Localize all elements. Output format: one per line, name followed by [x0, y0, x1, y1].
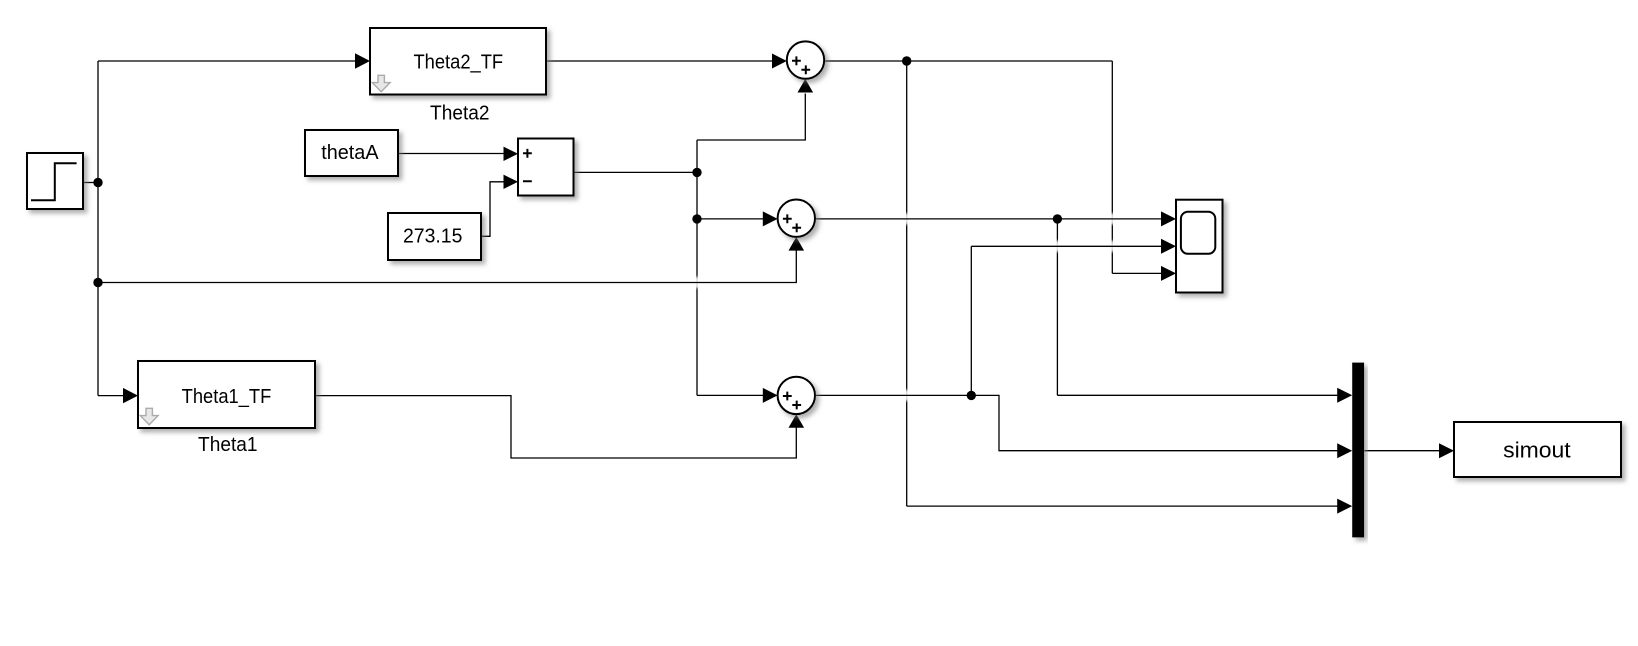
wire: thetaA output to sum-rect plus input — [398, 153, 504, 155]
wire: corner down to scope input 3 — [1112, 272, 1162, 274]
scope block — [1176, 200, 1223, 293]
wire: Theta1_TF output jog to sum3 bottom input — [315, 396, 796, 458]
wire: step output vertical trunk x=98 (y61 to y395.6) — [97, 61, 99, 396]
transfer function block Theta1_TF — [138, 361, 315, 428]
junction at sum1 output (906.7,60.7) — [902, 56, 911, 65]
wire: sum2 branch to mux input 1 — [1057, 394, 1338, 396]
arrowhead into sum-rect minus input — [504, 175, 519, 189]
arrowhead into simout input — [1439, 443, 1454, 458]
wire: step output stub to junction — [83, 182, 98, 184]
to-workspace block simout — [1454, 422, 1621, 477]
wire: trunk top corner to sum1 bottom input — [697, 94, 805, 141]
sum circle 2 (ambient-converted + step) — [778, 200, 815, 237]
crossing gap at (1112.3,246.3) — [1110, 241, 1114, 252]
wire: step trunk to Theta1_TF input (y=395.6) — [98, 395, 124, 397]
wire: sum3 branch up to scope input 2 — [971, 245, 1162, 247]
crossing gap at (1057.4,246.3) — [1056, 241, 1060, 252]
wire: trunk bottom corner to sum3 left input — [697, 394, 764, 396]
wire: sum2 output to scope input 1 — [815, 218, 1162, 220]
svg-text:simout: simout — [1503, 438, 1571, 463]
wire: step to Theta2_TF input (y=61) — [98, 60, 356, 62]
step source block — [27, 153, 83, 209]
arrowhead into scope input 1 — [1161, 211, 1176, 226]
svg-text:Theta2_TF: Theta2_TF — [413, 51, 503, 73]
wire: trunk junction to sum2 left input — [697, 218, 764, 220]
arrowhead into mux input 3 — [1337, 499, 1352, 514]
arrowhead into sum2 bottom input — [789, 237, 805, 251]
svg-text:Theta2: Theta2 — [430, 103, 490, 125]
mux block — [1352, 363, 1364, 538]
wire: sum-rect output to trunk junction — [574, 171, 698, 173]
crossing gap at (1112.3,218.9) — [1110, 213, 1114, 224]
wire: sum3 branch vertical x=971.3 (y246.3 to y395.4) — [970, 246, 972, 395]
junction at sum2 output (1057.4,218.9) — [1053, 214, 1062, 223]
arrowhead into scope input 3 — [1161, 266, 1176, 281]
wire: sum-rect output trunk x=697 (y140 to y395.4) — [696, 140, 698, 395]
wire: sum1-to-scope vertical x=1112.3 (y61 to y273.4) — [1111, 61, 1113, 273]
arrowhead into Theta2_TF input — [355, 53, 370, 68]
arrowhead into mux input 1 — [1337, 388, 1352, 403]
wire: step lower junction long run to sum2 bottom input — [98, 251, 796, 283]
crossing gap at (697,282.5) — [695, 277, 699, 288]
arrowhead into sum3 left input — [763, 388, 778, 403]
junction at step lower branch (98,282.5) — [93, 278, 102, 287]
junction at sum-rect output (697,172.4) — [692, 168, 701, 177]
label Theta2 — [430, 103, 490, 125]
constant block thetaA — [305, 130, 398, 176]
arrowhead into sum-rect plus input — [504, 147, 519, 161]
wire: sum1 output to corner x=1112.3 — [824, 60, 1112, 62]
arrowhead into scope input 2 — [1161, 239, 1176, 254]
svg-text:Theta1: Theta1 — [198, 434, 258, 456]
svg-text:Theta1_TF: Theta1_TF — [182, 386, 272, 408]
arrowhead into sum1 left input — [772, 54, 787, 69]
sum block rectangular plus-minus — [518, 139, 574, 196]
sum circle 1 (Theta2 + ambient) — [787, 41, 824, 78]
wire: sum2 branch vertical x=1057.4 (y218.9 to y395.3) — [1056, 219, 1058, 395]
junction at step output (98,182.5) — [93, 178, 102, 187]
wire: 273.15 output jog to sum-rect minus input — [481, 182, 504, 237]
sum circle 3 (Theta1 + step) — [778, 377, 815, 414]
arrowhead into sum1 bottom input — [798, 79, 814, 93]
wire: Theta2_TF output to sum1 left input — [546, 60, 773, 62]
arrowhead into mux input 2 — [1337, 443, 1352, 458]
constant block 273.15 — [388, 213, 481, 260]
arrowhead into Theta1_TF input — [123, 388, 138, 403]
crossing gap at (906.7,395.4) — [905, 390, 909, 401]
junction at sum3 output (971.3,395.4) — [967, 391, 976, 400]
arrowhead into sum2 left input — [763, 211, 778, 226]
svg-text:273.15: 273.15 — [403, 226, 463, 248]
crossing gap at (906.7,218.9) — [905, 213, 909, 224]
arrowhead into sum3 bottom input — [789, 414, 805, 428]
wire: sum3 output to jog corner — [815, 395, 1338, 450]
svg-text:thetaA: thetaA — [321, 142, 379, 164]
wire: sum1 branch to mux input 3 — [907, 505, 1338, 507]
transfer function block Theta2_TF — [370, 28, 546, 95]
wire: sum1 branch vertical x=906.7 (y61 to y506.1) — [906, 61, 908, 506]
junction at sum2 left branch (697,218.9) — [692, 214, 701, 223]
label Theta1 — [198, 434, 258, 456]
wire: mux output to simout — [1364, 450, 1440, 452]
